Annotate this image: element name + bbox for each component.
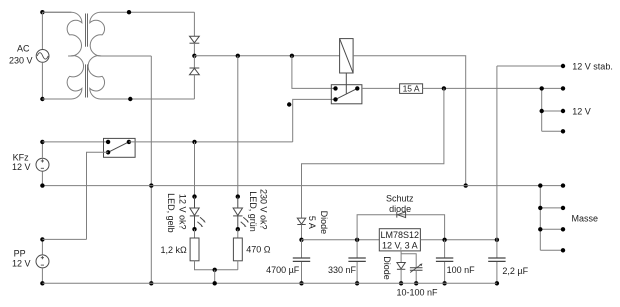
wire relay NO contact feed xyxy=(292,56,336,89)
svg-text:230 V: 230 V xyxy=(9,56,33,66)
svg-text:100 nF: 100 nF xyxy=(447,265,476,275)
PP plus sign xyxy=(41,256,44,259)
LED D7 arrowheads xyxy=(244,220,249,227)
sine wave inside AC source xyxy=(37,53,48,59)
wire secondary center tap xyxy=(101,55,151,57)
KFz minus sign xyxy=(41,167,44,169)
diode D2 rectifier lower xyxy=(190,68,200,75)
capacitor C5 2.2uF xyxy=(488,240,505,283)
wire yellow LED chain top xyxy=(194,142,196,197)
diode D1 rectifier upper xyxy=(190,36,200,43)
junction dot fuse output branch xyxy=(442,86,446,90)
svg-text:LED, grün: LED, grün xyxy=(248,191,258,232)
svg-text:Diode: Diode xyxy=(382,256,392,280)
node dot KFz plus xyxy=(40,140,44,144)
wire diode 5A to input node xyxy=(301,225,303,240)
svg-text:Masse: Masse xyxy=(572,213,599,223)
transformer T1 secondary winding lower section xyxy=(88,56,194,99)
svg-text:2,2 µF: 2,2 µF xyxy=(502,266,528,276)
wire main DC rail to relay coil xyxy=(194,55,339,57)
svg-text:KFz: KFz xyxy=(13,152,30,162)
wire 12V terminal chain xyxy=(542,88,563,131)
wire center tap vertical to ground rails xyxy=(150,56,152,283)
svg-text:12 V ok?: 12 V ok? xyxy=(177,194,187,230)
svg-text:5 A: 5 A xyxy=(307,216,317,229)
svg-text:LED, gelb: LED, gelb xyxy=(166,193,176,233)
relay K1b switch box xyxy=(104,138,136,157)
svg-text:12 V, 3 A: 12 V, 3 A xyxy=(382,241,418,251)
voltage source PP 12V xyxy=(36,255,49,268)
stray node dot xyxy=(287,102,291,106)
wire node to D2 xyxy=(193,56,195,68)
svg-text:330 nF: 330 nF xyxy=(328,265,357,275)
svg-text:AC: AC xyxy=(17,44,30,54)
junction dot yellow LED branch xyxy=(192,140,196,144)
svg-text:12 V: 12 V xyxy=(12,258,31,268)
fuse F1 box xyxy=(400,84,423,94)
wire relay coil to ground corner xyxy=(353,56,466,186)
wire regulator output rail xyxy=(420,239,497,241)
junction dot regulator ground xyxy=(399,281,403,285)
relay K1 switch box xyxy=(331,85,362,104)
junction dots Masse chain xyxy=(538,183,542,187)
node dot secondary bottom xyxy=(128,97,132,101)
diode D5 at regulator ground xyxy=(397,263,405,270)
capacitor C3 trimmer 10-100nF xyxy=(410,263,423,283)
voltage source AC 230V circle xyxy=(36,50,49,63)
svg-text:1,2 kΩ: 1,2 kΩ xyxy=(160,245,187,255)
junction dot 330nF ground xyxy=(355,281,359,285)
junction dot output riser xyxy=(495,238,499,242)
wire diode D5 to ground xyxy=(400,269,402,283)
svg-text:diode: diode xyxy=(389,204,411,214)
wire AC source column top xyxy=(41,12,43,49)
transformer T1 core lines xyxy=(85,14,88,98)
transformer T1 primary winding lower section xyxy=(42,56,83,99)
wire Masse ground rail xyxy=(42,185,540,187)
wire fuse to 12V terminals xyxy=(423,87,542,89)
node dot PP plus xyxy=(40,237,44,241)
wire relay2 NC to PP riser xyxy=(87,152,109,239)
wire resistor R1 to common xyxy=(195,261,238,270)
terminal dots Masse xyxy=(561,183,565,187)
relay K1 switch lever xyxy=(336,88,358,99)
junction dot 100nF branch xyxy=(442,238,446,242)
wire LED green to resistor xyxy=(237,229,239,238)
wire D1 to node xyxy=(193,43,195,56)
capacitor C2 330nF xyxy=(348,240,365,283)
KFz plus sign xyxy=(41,159,44,162)
relay K1 contact dots xyxy=(333,86,337,90)
node dot AC top xyxy=(40,10,44,14)
wire rectifier top segment xyxy=(193,12,195,36)
wire fuse branch down and to diode 5A xyxy=(302,88,444,218)
junction dots 12V chain xyxy=(540,86,544,90)
svg-text:12 V: 12 V xyxy=(12,162,31,172)
junction dot center tap at Masse rail xyxy=(149,183,153,187)
wire relay2 common to KFz feed rail xyxy=(129,141,293,143)
junction dot LED ground xyxy=(213,281,217,285)
wire green LED chain top xyxy=(237,56,239,197)
wire LED yellow to resistor xyxy=(194,229,196,238)
LED D7 green xyxy=(233,197,248,230)
wire trimmer branch xyxy=(401,254,416,268)
junction dot regulator input node xyxy=(299,238,303,242)
pin dot LED yellow top xyxy=(192,194,196,198)
svg-text:12 V: 12 V xyxy=(572,106,591,116)
svg-text:LM78S12: LM78S12 xyxy=(381,230,420,240)
node dot secondary top xyxy=(127,10,131,14)
junction dot green LED branch xyxy=(236,54,240,58)
wire 12V stab terminal stub xyxy=(497,65,563,67)
wire KFz rail to relay2 xyxy=(42,141,108,143)
relay K1b switch lever xyxy=(108,142,129,152)
svg-text:470 Ω: 470 Ω xyxy=(246,245,271,255)
svg-text:15 A: 15 A xyxy=(403,84,420,94)
pin dot LED green top xyxy=(236,194,240,198)
relay K1b contact dots xyxy=(106,140,110,144)
junction dot 100nF ground xyxy=(442,281,446,285)
wire 12V stab riser xyxy=(496,66,498,240)
junction dot coil return at Masse rail xyxy=(464,183,468,187)
diode D4 Schutzdiode xyxy=(397,212,406,218)
node dot PP minus xyxy=(40,281,44,285)
regulator ground pin wire xyxy=(400,251,402,262)
PP minus sign xyxy=(41,264,44,266)
voltage source KFz 12V xyxy=(36,158,49,171)
resistor R2 470 box xyxy=(233,238,242,261)
regulator U1 LM78S12 box xyxy=(379,229,420,251)
relay K1 coil diagonal xyxy=(340,39,354,73)
junction dot 330nF and bypass branch xyxy=(355,238,359,242)
wire AC source column bottom xyxy=(41,62,43,99)
node dot rectifier output xyxy=(192,54,196,58)
diode D3 5A xyxy=(297,218,305,224)
terminal dots 12V xyxy=(561,86,565,90)
svg-text:10-100 nF: 10-100 nF xyxy=(396,287,438,297)
wire relay NC contact to KFz rail xyxy=(293,99,336,141)
svg-text:Diode: Diode xyxy=(319,211,329,235)
wire Schutzdiode bypass xyxy=(357,215,445,240)
junction dot trimmer ground xyxy=(414,281,418,285)
wire KFz top xyxy=(41,142,43,158)
svg-text:230 V ok?: 230 V ok? xyxy=(259,189,269,230)
relay K1 actuator link xyxy=(345,73,347,94)
transformer T1 primary winding upper section xyxy=(42,12,82,56)
wire relay common to fuse xyxy=(362,87,400,89)
resistor R1 1.2k box xyxy=(190,238,199,261)
svg-text:PP: PP xyxy=(14,249,26,259)
wire Masse terminal chain xyxy=(540,186,563,251)
LED D6 arrowheads xyxy=(201,220,206,227)
svg-text:4700 µF: 4700 µF xyxy=(266,265,300,275)
junction dot center tap at bottom rail xyxy=(149,281,153,285)
pin dot LED yellow bottom xyxy=(192,227,196,231)
junction dot relay contact branch xyxy=(290,54,294,58)
svg-text:Schutz: Schutz xyxy=(386,194,414,204)
junction dot LED common xyxy=(213,268,217,272)
wire AC top lead xyxy=(42,11,71,13)
wire PP top xyxy=(41,239,43,254)
svg-text:12 V stab.: 12 V stab. xyxy=(572,61,613,71)
wire KFz bottom to Masse rail xyxy=(41,172,43,186)
transformer T1 secondary winding upper section xyxy=(90,12,195,56)
wire bottom ground rail xyxy=(42,282,497,284)
pin dot LED green bottom xyxy=(236,227,240,231)
node dot KFz minus xyxy=(40,183,44,187)
relay K1 coil box xyxy=(340,39,354,73)
wire resistor R2 to common xyxy=(237,261,239,270)
wire regulator input rail xyxy=(302,239,380,241)
node dot AC bottom xyxy=(40,97,44,101)
junction dot 2.2uF ground xyxy=(495,281,499,285)
terminal dot 12V stab xyxy=(561,64,565,68)
wire PP plus to riser xyxy=(42,238,86,240)
capacitor C4 100nF xyxy=(436,240,453,283)
LED D6 yellow xyxy=(190,197,205,230)
wire AC bottom lead xyxy=(42,98,71,100)
wire D2 to bottom wire xyxy=(193,75,195,99)
capacitor C1 4700uF xyxy=(293,240,310,283)
wire PP bottom to bottom rail xyxy=(41,268,43,283)
wire LED common to ground xyxy=(214,270,216,284)
junction dot 4700uF ground xyxy=(299,281,303,285)
